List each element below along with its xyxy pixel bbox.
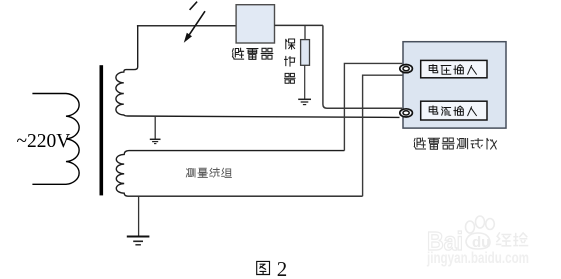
terminal: current input binding post [400, 109, 413, 117]
label: protector 保护器 (vertical) [285, 39, 296, 83]
wire: arrester output to tap node [275, 24, 323, 26]
wire: protector to ground [304, 65, 306, 99]
ground: W2 earth [127, 237, 150, 245]
label: measurement winding 测量绕组 [186, 168, 231, 177]
wire: W2 bottom lead up to voltage input (low) [363, 75, 403, 196]
arrester MOA box [236, 5, 274, 43]
label: arrester 避雷器 [233, 48, 273, 59]
wire: mains phase from switch to arrester (top horizontal) [137, 25, 237, 27]
protector (gap protector) body [301, 40, 310, 66]
terminal: voltage input binding post [400, 65, 413, 73]
wire: W2 ground stub [138, 196, 140, 236]
transformer secondary winding W1 (HV test winding) [116, 26, 400, 118]
transformer measurement winding W2 测量绕组 [116, 151, 362, 197]
svg-text:du: du [472, 234, 490, 251]
transformer core [100, 65, 104, 195]
label: tester 避雷器测试仪 [414, 138, 496, 149]
svg-text:jingyan.baidu.com: jingyan.baidu.com [426, 250, 529, 267]
wire: W2 top lead up to voltage input (high) [344, 63, 402, 150]
caption: 图 2 [257, 257, 288, 279]
input port box 电流输入 [421, 101, 487, 120]
node: protector tap junction [304, 25, 306, 39]
transformer T1 primary winding [32, 94, 79, 185]
ground: W1 earth [150, 139, 161, 143]
watermark: Baidu Jingyan logo [426, 216, 529, 267]
switch S1 (disconnect blade with arrow) [184, 2, 205, 43]
wire: W1 cold end ground stub [154, 116, 156, 139]
wire: tap node down and right to current input terminal [323, 25, 402, 108]
tester box U1 避雷器测试仪 [403, 42, 506, 128]
svg-text:~220V: ~220V [17, 131, 71, 152]
svg-text:2: 2 [277, 257, 288, 279]
input port box 电压输入 [421, 60, 487, 77]
label: ~220V mains [17, 131, 71, 152]
ground: protector earth [298, 99, 311, 104]
